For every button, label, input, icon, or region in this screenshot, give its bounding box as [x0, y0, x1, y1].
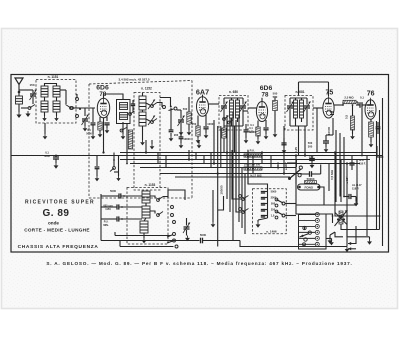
bus junction dots: [102, 151, 348, 174]
strip wires: [296, 205, 332, 239]
wire drop a: [126, 124, 128, 164]
trimmer C9: [240, 98, 247, 126]
resistor R6 2.5M: [343, 96, 364, 104]
wire fono right: [320, 164, 329, 205]
label frequency range: [118, 78, 149, 82]
svg-text:CORTE - MEDIE - LUNGHE: CORTE - MEDIE - LUNGHE: [24, 227, 90, 232]
ground R5: [273, 126, 278, 137]
label 1000 con 500: [244, 163, 261, 167]
strip switches: [300, 226, 310, 237]
svg-text:500: 500: [308, 141, 313, 145]
cluster switch: [110, 153, 115, 172]
IF coil L7: [230, 100, 240, 118]
svg-text:5000: 5000: [271, 190, 277, 194]
ground out3: [345, 235, 350, 252]
left cluster wire: [95, 156, 100, 177]
capacitor C7 10000: [203, 122, 215, 133]
capacitor C23: [343, 194, 356, 199]
tube V5 76: [365, 98, 376, 120]
wire af verticals: [336, 130, 344, 202]
bus wire 7: [175, 176, 290, 178]
ladder spine: [267, 190, 269, 218]
IF2 dashed box n.681: [285, 96, 313, 131]
coil L3b: [53, 101, 60, 112]
wire drop h: [304, 126, 306, 156]
ground V1 cathode: [98, 130, 103, 137]
svg-text:S. A. GELOSO. — Mod. G. 89. —: S. A. GELOSO. — Mod. G. 89. — Per B F v.…: [46, 261, 352, 266]
bus wire 5: [140, 167, 296, 169]
switch lever T9: [167, 241, 173, 243]
svg-text:50000: 50000: [307, 177, 315, 181]
svg-text:250: 250: [192, 122, 197, 126]
ground mid 1: [150, 140, 155, 149]
ground C10: [248, 123, 268, 139]
RF unit dashed box: [89, 81, 192, 199]
wire drop d: [213, 120, 215, 164]
resistor R1: [98, 122, 102, 130]
labels 500 300: [308, 141, 313, 149]
antenna: [15, 78, 23, 92]
wire drop i: [316, 108, 318, 153]
label n.680: [229, 90, 238, 94]
svg-text:500: 500: [183, 107, 188, 111]
svg-text:N.17 BIS: N.17 BIS: [250, 174, 261, 178]
wire L4 bottom: [122, 122, 124, 134]
wire osc to cap: [163, 190, 185, 200]
wire V1 down: [91, 108, 96, 134]
title line 2: [24, 227, 90, 232]
svg-text:118 P.: 118 P.: [352, 187, 359, 191]
wire osc out2: [150, 211, 155, 214]
svg-text:76: 76: [367, 91, 375, 98]
vertical label: [220, 185, 224, 195]
label V4 75: [326, 90, 334, 97]
resistor R5 500: [273, 92, 278, 127]
resistor R2 500: [183, 97, 191, 130]
ground R8: [350, 134, 355, 139]
label n.1153: [145, 183, 156, 187]
tube V1 6D6/78: [97, 96, 109, 118]
caption: [46, 261, 352, 266]
svg-text:0,5: 0,5: [345, 115, 349, 120]
antenna coil L1: [16, 92, 23, 112]
svg-text:n. 1153: n. 1153: [145, 183, 156, 187]
contact T9: [173, 239, 176, 242]
switch S5a: [223, 116, 229, 121]
wire osc out1: [150, 196, 155, 199]
wire to V1 grid: [74, 108, 95, 116]
switch S3b: [157, 212, 163, 217]
terminal strip right: [315, 213, 319, 247]
varcap arrow n1152a: [148, 100, 155, 110]
capacitor C13: [356, 102, 366, 108]
terminal T1: [71, 94, 79, 109]
svg-text:150/50: 150/50: [220, 185, 224, 195]
ladder tap 250: [261, 208, 278, 213]
ground L4: [121, 134, 126, 139]
svg-text:G. 89: G. 89: [43, 208, 70, 219]
svg-text:onde: onde: [48, 221, 59, 226]
fono switch: [287, 159, 302, 180]
svg-text:0,25: 0,25: [294, 147, 298, 153]
resistor R10: [244, 167, 262, 170]
label N.17 BIS: [250, 174, 261, 178]
wire bottom row3: [120, 241, 174, 247]
FONO connector: [298, 184, 321, 190]
title line 1: [25, 200, 95, 206]
wire IF1 to V3: [248, 107, 256, 109]
ladder tap 500: [261, 202, 278, 207]
capacitor C21 5000: [200, 233, 240, 243]
wire out 3: [348, 247, 356, 250]
capacitor C17: [112, 193, 142, 198]
ground C23: [354, 197, 359, 207]
box around AF unit: [296, 160, 357, 205]
wire texture drops: [158, 153, 271, 174]
strip wire up: [326, 214, 333, 223]
trimmer C11: [287, 98, 294, 126]
diode plates V4: [330, 112, 334, 115]
label 1 P.U.: [247, 149, 255, 153]
ground mid 2: [197, 140, 202, 148]
IF1 dashed box n.680: [219, 96, 248, 131]
terminal strip left: [303, 226, 312, 246]
ground out1: [328, 238, 333, 244]
ground R3: [196, 136, 201, 143]
ground R4: [256, 136, 261, 144]
coil unit n.1152 dashed box: [134, 93, 160, 191]
title onde: [48, 221, 59, 226]
wire IF1 bottom: [224, 118, 243, 153]
wire drop v1: [103, 118, 105, 153]
wire antenna to C1: [19, 89, 33, 91]
tube V4 75: [323, 96, 334, 118]
switch S1a: [21, 105, 35, 110]
capacitor C18: [112, 204, 142, 209]
label n.1152: [141, 87, 152, 91]
wire V4 plate: [334, 102, 344, 106]
wire out cross: [330, 216, 370, 239]
switch S4b: [239, 208, 249, 214]
resistor R12: [222, 126, 226, 153]
wire IF2 bottom: [290, 118, 307, 156]
svg-text:a 18°°: a 18°°: [284, 161, 288, 170]
ladder tap 2500: [261, 196, 278, 201]
svg-text:10000: 10000: [248, 130, 256, 134]
svg-text:n. 680: n. 680: [229, 90, 238, 94]
label N.118P: [352, 183, 362, 191]
wire V4 top: [299, 82, 329, 96]
tuning cap C5: [177, 110, 185, 130]
capacitor C24: [349, 156, 354, 171]
svg-text:118 F.: 118 F.: [359, 163, 366, 166]
switch S2a: [129, 111, 135, 115]
wire strip gnd: [329, 239, 334, 246]
capacitor C16 150: [309, 155, 315, 163]
resistor R11 50000: [305, 177, 317, 184]
capacitor C15: [281, 138, 286, 153]
switch S5b: [228, 119, 234, 124]
coil unit n.1151 dashed box: [36, 80, 76, 124]
svg-text:10000: 10000: [183, 137, 191, 141]
ground left cluster: [95, 176, 100, 181]
osc components: [174, 130, 191, 148]
label n.1496: [266, 230, 277, 234]
capacitor C10: [263, 128, 268, 134]
cluster wire2: [114, 156, 121, 182]
ladder switch arm 1: [277, 200, 297, 206]
capacitor C19: [112, 216, 142, 221]
svg-text:0,1: 0,1: [360, 96, 364, 100]
ground S1: [25, 111, 30, 117]
ground C2: [83, 126, 88, 131]
ground coil a: [42, 112, 47, 139]
terminal T5: [171, 206, 174, 209]
ground R2: [187, 130, 192, 135]
svg-text:n. 1151: n. 1151: [48, 75, 59, 79]
svg-text:AL N.17: AL N.17: [352, 183, 362, 187]
vertical wire labels: [276, 147, 298, 170]
capacitor C22: [302, 165, 321, 177]
wire bottom right: [240, 241, 347, 247]
title chassis: [18, 244, 99, 250]
svg-text:1,0: 1,0: [271, 214, 275, 218]
svg-text:3,4 592 mc/s. 42 527,5: 3,4 592 mc/s. 42 527,5: [118, 78, 149, 82]
switch S1b: [66, 105, 81, 110]
svg-text:RICEVITORE SUPER: RICEVITORE SUPER: [25, 200, 95, 206]
terminal T4: [169, 107, 178, 111]
svg-text:n. 681: n. 681: [295, 90, 304, 94]
bus wire 4: [130, 163, 360, 165]
coil L11: [140, 221, 148, 233]
wire osc bottom: [101, 240, 200, 242]
label V5 76: [367, 91, 375, 98]
wire right bus 2: [377, 146, 383, 157]
terminal block box: [299, 214, 327, 249]
wire fono left: [295, 168, 297, 184]
ground C7: [204, 133, 209, 138]
ground out2: [367, 239, 372, 245]
IF coil L8: [294, 100, 304, 118]
svg-text:n. 1152: n. 1152: [141, 87, 152, 91]
label V3 6D6: [260, 85, 273, 98]
tube V3 6D6/78: [256, 98, 267, 122]
svg-text:5000: 5000: [200, 233, 207, 237]
capacitor C4: [131, 100, 135, 112]
antenna terminal: [18, 91, 21, 94]
rot labels af: [330, 169, 349, 183]
wire V2 grid top: [202, 95, 204, 98]
wire drop f: [283, 126, 285, 174]
terminal T2: [76, 108, 82, 118]
wire IF1 top: [224, 98, 243, 100]
wire osc coils: [144, 203, 146, 238]
label V2 6A7: [196, 88, 209, 97]
svg-text:150: 150: [29, 83, 34, 87]
wire right bus 3: [376, 121, 378, 230]
svg-text:a 18°: a 18°: [345, 176, 349, 184]
trimmer C8: [221, 98, 228, 126]
wire drop n: [366, 156, 368, 237]
ladder tap 1.0: [261, 214, 278, 219]
svg-text:5000: 5000: [110, 189, 116, 193]
svg-text:10000: 10000: [327, 126, 331, 135]
switch S2c: [151, 119, 157, 124]
wire drop c: [188, 150, 190, 160]
coil L3a: [41, 101, 48, 112]
svg-text:300: 300: [308, 145, 313, 149]
ground coil b: [54, 112, 58, 121]
svg-text:1 MΩ: 1 MΩ: [276, 162, 280, 170]
wire T4 up: [160, 98, 172, 108]
switch S4a: [239, 195, 249, 201]
svg-text:5000: 5000: [44, 154, 50, 158]
svg-text:2500: 2500: [271, 196, 277, 200]
wire V2 to n680: [209, 103, 220, 105]
switch S2d: [120, 128, 126, 132]
wire drop b: [145, 140, 147, 153]
label V1 6D6: [96, 85, 109, 98]
ground C3: [105, 128, 110, 133]
capacitor C14 0.1-5000: [44, 151, 59, 169]
wire right bus 4: [379, 110, 381, 217]
switch S3a: [157, 197, 163, 202]
osc coil dashed box n.1153: [127, 188, 168, 245]
bus wire 2: [120, 152, 377, 154]
ground R7: [369, 142, 374, 147]
wire out cross2: [348, 226, 357, 245]
ground L6: [140, 140, 145, 145]
wire IF2 top: [290, 98, 307, 100]
resistor R13 AVC: [128, 130, 132, 149]
wire drop l: [346, 164, 348, 236]
tube V2 6A7: [197, 95, 209, 117]
contact T10: [175, 245, 178, 248]
coil L9: [142, 191, 150, 203]
svg-text:0,5 MΩ: 0,5 MΩ: [330, 169, 334, 180]
svg-text:0.1: 0.1: [250, 123, 254, 127]
ground C6: [169, 136, 174, 141]
contact T8: [173, 233, 176, 236]
bus wire 3: [120, 159, 370, 161]
ground C20: [185, 236, 190, 242]
wire drop j: [334, 153, 336, 214]
svg-text:n. 1496: n. 1496: [266, 230, 277, 234]
svg-text:75: 75: [326, 90, 334, 97]
wire long vertical: [218, 126, 224, 247]
wire drop e: [220, 126, 222, 168]
label n.681: [295, 90, 304, 94]
padding resistors box n.1496 dashed: [253, 189, 287, 234]
coil L2b: [53, 86, 60, 97]
wire V2 cath: [198, 115, 206, 126]
ground C5: [179, 130, 184, 135]
switch S2b: [151, 103, 157, 108]
switch lever T8: [167, 235, 173, 237]
wire drop m: [361, 108, 363, 156]
wire right bus 1: [382, 98, 384, 246]
svg-text:78: 78: [262, 91, 269, 98]
bus wire 6: [160, 173, 302, 175]
wire V1 plate: [103, 97, 105, 99]
svg-text:1150: 1150: [105, 208, 111, 211]
ladder switch arm 2: [277, 212, 297, 218]
ground L11: [142, 238, 147, 243]
ground antenna: [16, 112, 21, 118]
svg-text:2,5 MΩ: 2,5 MΩ: [344, 96, 354, 100]
svg-text:FONO: FONO: [304, 186, 313, 190]
ground V1 grid return: [91, 134, 96, 139]
bus wire 1: [11, 155, 383, 157]
wire L4 top: [104, 94, 124, 100]
labels osc left: [103, 189, 116, 227]
cap C2: [82, 115, 93, 136]
resistor R8 0.5: [345, 104, 355, 134]
wire coil tops: [45, 84, 57, 87]
wire to C5: [157, 103, 162, 108]
wire V1 cathode leads: [100, 117, 107, 123]
wire ladder up: [248, 150, 268, 190]
coil L2a: [41, 86, 48, 97]
capacitor C25: [244, 124, 255, 143]
resistor R9: [244, 154, 262, 157]
schematic frame: [11, 75, 389, 253]
title G.89: [43, 208, 70, 219]
terminal T6: [171, 214, 174, 217]
coil L6: [139, 112, 146, 126]
wires into switches: [232, 150, 242, 212]
osc ground mid: [211, 190, 216, 227]
wire drop k: [340, 160, 342, 203]
wire IF1 out: [243, 110, 248, 112]
tuning cap C20: [183, 218, 190, 236]
ground ladder: [256, 218, 268, 228]
wire bottom row1: [115, 232, 171, 236]
wire L5 L6: [142, 93, 144, 141]
coil box L4: [117, 100, 131, 124]
svg-text:0,1: 0,1: [45, 151, 49, 155]
capacitor C3: [104, 123, 109, 128]
wire C13 to V5: [366, 100, 371, 105]
potentiometer: [335, 210, 348, 226]
label n.1151: [48, 75, 59, 79]
wire R6 right: [356, 102, 358, 105]
cable bundle: [227, 112, 248, 241]
wire coil links: [45, 97, 57, 101]
V4 cathode network: [323, 118, 333, 152]
coil L5: [139, 96, 146, 110]
label n17 cap: [359, 159, 366, 166]
wire box out: [146, 103, 151, 122]
svg-text:1000 con 500: 1000 con 500: [244, 163, 261, 167]
wire osc left vert: [101, 194, 112, 241]
svg-text:MIN.: MIN.: [103, 224, 109, 227]
ground C16: [310, 163, 315, 169]
coil L10: [142, 206, 150, 218]
trimmer C1 150: [29, 83, 36, 104]
terminal T7: [173, 221, 176, 224]
trimmer C12: [304, 98, 311, 126]
wires pot: [335, 213, 380, 230]
grid leak R7: [369, 119, 381, 142]
resistor R3 250: [192, 122, 200, 136]
terminal row wires: [299, 215, 316, 245]
wire V3 cath: [258, 120, 266, 127]
svg-text:200: 200: [174, 133, 179, 137]
terminal T3: [163, 106, 166, 109]
capacitor C6: [169, 108, 174, 136]
wire IF2 to V4: [313, 107, 323, 109]
